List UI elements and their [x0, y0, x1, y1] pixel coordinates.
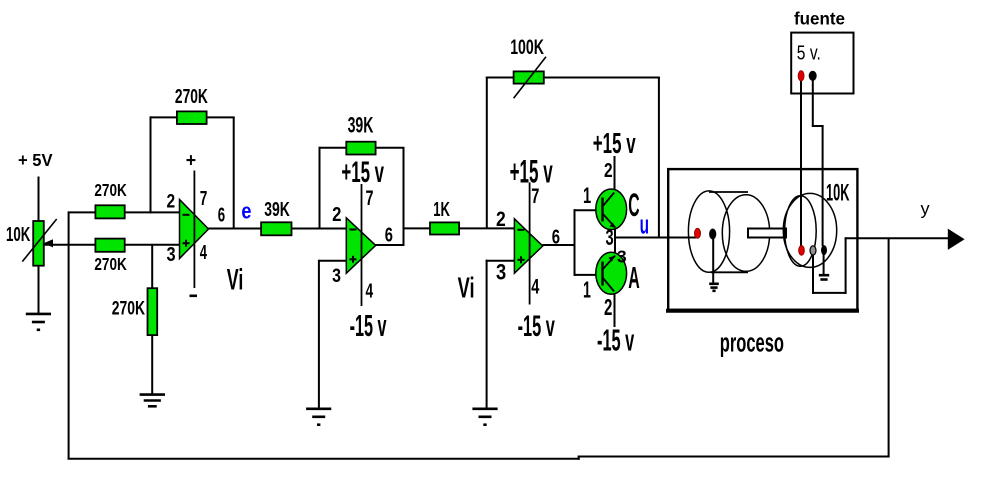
svg-text:2: 2 — [604, 159, 613, 181]
wire 100K feedback left vertical — [486, 77, 488, 230]
resistor R4 270K (U1 feedback) — [177, 111, 207, 124]
op-amp U3 minus input mark — [518, 229, 525, 231]
svg-text:2: 2 — [332, 203, 341, 226]
svg-text:-15 v: -15 v — [597, 324, 634, 358]
resistor R5 39K series — [261, 222, 291, 235]
wire U1 feedback top — [150, 116, 235, 118]
svg-text:270K: 270K — [175, 84, 208, 107]
svg-text:7: 7 — [531, 184, 539, 207]
ground under potentiometer — [26, 313, 51, 316]
tacho inner ellipse — [785, 196, 817, 266]
motor black terminal — [709, 229, 716, 240]
ground under R3 — [140, 393, 165, 396]
wire node u to motor — [614, 237, 696, 239]
wire fuente black terminal down — [812, 80, 814, 126]
svg-text:3: 3 — [617, 246, 627, 266]
wire fuente black jog — [812, 125, 824, 127]
wire Q1 collector to +15v — [614, 156, 616, 191]
svg-text:-15 v: -15 v — [350, 310, 387, 344]
tacho middle terminal — [810, 246, 816, 255]
svg-text:+15 v: +15 v — [341, 156, 384, 189]
svg-text:5 v.: 5 v. — [797, 41, 821, 63]
wire bottom rail step — [578, 456, 580, 460]
transistor Q1 collector stroke — [603, 193, 615, 207]
motor left ellipse — [688, 191, 729, 272]
wire U2 pin3 to ground — [318, 260, 320, 408]
transistor Q2 A body — [596, 252, 627, 294]
wire 100K feedback top — [486, 77, 660, 79]
svg-text:+15 v: +15 v — [593, 128, 636, 160]
resistor R7 1K series — [430, 222, 459, 234]
svg-text:10K: 10K — [826, 181, 850, 207]
svg-text:A: A — [628, 261, 640, 295]
wire U2 pin3 stub — [319, 260, 347, 262]
transistor Q1 emitter stroke — [603, 214, 616, 228]
op-amp U1 supply line — [193, 171, 195, 289]
wire feedback right vertical — [888, 238, 890, 457]
svg-text:Vi: Vi — [227, 264, 244, 297]
svg-text:4: 4 — [200, 241, 208, 264]
svg-text:1K: 1K — [433, 198, 450, 220]
wire U3 pin3 to ground — [486, 260, 488, 408]
wire bottom rail left — [68, 458, 580, 460]
svg-text:100K: 100K — [510, 35, 544, 58]
svg-text:1: 1 — [583, 278, 591, 303]
svg-text:6: 6 — [218, 204, 225, 226]
svg-text:proceso: proceso — [720, 327, 784, 357]
svg-text:1: 1 — [583, 183, 591, 208]
wire 1K row to U3 pin2 — [404, 227, 516, 229]
wire base bracket vertical — [574, 209, 576, 276]
svg-text:6: 6 — [552, 225, 560, 248]
wire tacho bottom jog — [812, 292, 847, 294]
motor bottom line — [711, 271, 748, 273]
resistor R6 39K (U2 feedback) — [346, 142, 375, 155]
ground under U3 — [472, 407, 497, 410]
wire U2 feedback left vertical — [319, 147, 321, 230]
wire emitter junction — [614, 226, 616, 253]
output arrow — [948, 229, 965, 250]
wire pot to ground — [38, 265, 40, 313]
wire bottom rail right — [578, 456, 890, 458]
op-amp U3 plus input mark — [518, 259, 525, 261]
op-amp U3 triangle — [514, 219, 542, 273]
potentiometer P1 wiper arrow — [44, 239, 53, 247]
op-amp U3 supply line — [529, 182, 531, 304]
ground under U2 — [306, 407, 331, 410]
svg-text:3: 3 — [332, 265, 341, 287]
wire tacho up leg — [845, 237, 847, 294]
fuente box — [791, 33, 853, 94]
potentiometer P1 10K body — [33, 221, 44, 266]
svg-text:C: C — [628, 188, 639, 224]
svg-text:+ 5V: + 5V — [18, 149, 53, 170]
op-amp U1 minus input mark — [183, 214, 190, 216]
transistor Q2 emitter stroke — [603, 256, 616, 270]
wire pin2 row op-amp U1 — [68, 211, 181, 213]
wire U2 feedback top — [319, 147, 405, 149]
motor right ellipse — [722, 195, 769, 272]
wire U1 feedback right vertical — [233, 117, 235, 229]
transistor Q2 base bar — [601, 262, 603, 286]
ground under motor — [709, 282, 719, 285]
svg-text:7: 7 — [366, 186, 374, 209]
fuente black terminal — [809, 71, 817, 81]
op-amp U2 minus input mark — [350, 229, 357, 231]
wire fuente red terminal down — [800, 80, 802, 246]
transistor Q1 C body — [596, 189, 627, 230]
svg-text:2: 2 — [604, 295, 613, 321]
svg-text:-15 v: -15 v — [518, 310, 556, 344]
svg-text:4: 4 — [531, 275, 539, 298]
svg-text:y: y — [921, 199, 930, 219]
wire U3 pin3 stub — [486, 260, 516, 262]
ground under tacho — [819, 274, 829, 277]
wire U2 output — [375, 244, 404, 246]
fuente red terminal — [798, 71, 804, 81]
wire Q2 base — [574, 274, 597, 276]
wire U3 output to bases — [542, 244, 575, 246]
svg-text:Vi: Vi — [458, 272, 475, 304]
svg-text:6: 6 — [385, 223, 393, 246]
op-amp U1 plus input mark — [183, 242, 190, 244]
wire motor terminal to ground — [712, 239, 714, 283]
resistor R1 270K (pin2 input) — [95, 205, 124, 218]
svg-text:2: 2 — [496, 209, 506, 232]
wire U2 feedback right vertical — [403, 148, 405, 246]
tacho outer ellipse — [783, 193, 836, 267]
svg-text:270K: 270K — [112, 297, 145, 319]
wire Q1 base — [574, 209, 597, 211]
svg-text:2: 2 — [167, 190, 176, 212]
wire tacho middle terminal down — [812, 253, 814, 294]
wire U1 feedback left vertical — [150, 116, 152, 213]
wire node y feedback left vertical — [68, 212, 70, 459]
proceso box — [668, 169, 857, 310]
op-amp U2 triangle — [346, 218, 375, 273]
wire U1 output to U2 pin2 — [208, 228, 347, 230]
svg-text:3: 3 — [167, 242, 176, 265]
svg-text:10K: 10K — [6, 223, 31, 245]
resistor R2 270K (pin3 input) — [95, 239, 124, 252]
resistor R8 100K (U3 feedback, variable) — [514, 71, 544, 83]
svg-text:+: + — [186, 149, 196, 171]
svg-text:3: 3 — [606, 225, 614, 250]
svg-text:4: 4 — [366, 280, 374, 302]
wire fuente black vertical 2 — [822, 125, 824, 246]
wire tacho black terminal to ground — [823, 254, 825, 274]
op-amp U1 triangle — [180, 200, 209, 259]
motor red terminal — [695, 228, 701, 238]
svg-text:fuente: fuente — [794, 8, 845, 29]
wire R3 to ground lead top — [151, 245, 153, 289]
svg-text:270K: 270K — [94, 255, 127, 274]
svg-text:39K: 39K — [348, 112, 374, 137]
wire Q2 collector to -15v — [614, 293, 616, 327]
potentiometer P1 diagonal — [22, 219, 56, 262]
transistor Q2 collector stroke — [603, 278, 615, 292]
svg-text:7: 7 — [200, 187, 208, 209]
resistor R8 diagonal arrow — [514, 57, 546, 98]
svg-text:e: e — [241, 200, 251, 224]
label - below U1 — [190, 294, 198, 297]
svg-text:39K: 39K — [264, 197, 290, 220]
wire R3 to ground lead bottom — [151, 334, 153, 394]
transistor Q1 base bar — [601, 198, 603, 222]
motor top line — [709, 191, 748, 193]
resistor R3 270K (to ground) — [148, 288, 158, 335]
tacho red terminal — [799, 246, 805, 256]
wire pin3 row op-amp U1 — [44, 244, 181, 246]
op-amp U2 supply line — [361, 184, 363, 306]
wire +5V to pot — [38, 177, 40, 223]
svg-text:u: u — [640, 209, 649, 240]
shaft — [748, 229, 786, 238]
op-amp U2 plus input mark — [350, 258, 357, 260]
tacho black terminal — [821, 245, 827, 255]
svg-text:3: 3 — [496, 261, 506, 285]
svg-text:270K: 270K — [94, 181, 127, 200]
wire 100K feedback right vertical — [658, 78, 660, 239]
wire output y — [845, 237, 949, 239]
